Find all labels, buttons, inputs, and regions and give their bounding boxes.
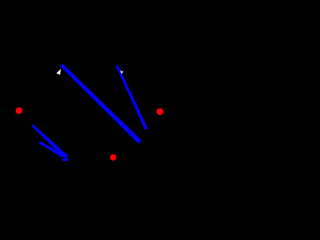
node N3 (red, bottom-center): [110, 154, 116, 160]
wire / edge E3 (lower-left arrow shaft): [31, 124, 68, 159]
arrowhead H3 (blue, tip of lower-left arrow): [62, 158, 69, 161]
node N1 (red, left): [16, 107, 23, 114]
arrowhead A1 (white, near start of edge E1): [56, 69, 61, 75]
node N2 (red, right): [157, 108, 164, 115]
wire / edge E2 (steep blue edge, top-center to mid-right): [116, 65, 148, 130]
wire / edge E1 (long blue edge, upper-left to lower-right): [60, 64, 141, 144]
wire / edge E4 (short converging stroke below E3): [38, 141, 64, 158]
arrowhead A2 (white, near start of edge E2): [120, 70, 123, 73]
